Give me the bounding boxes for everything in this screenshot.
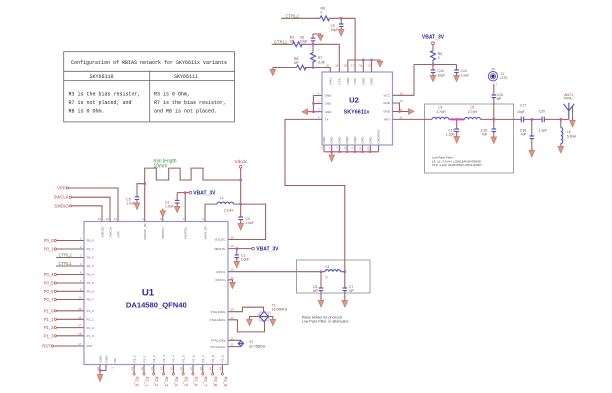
svg-text:CTRL2: CTRL2 (286, 13, 300, 18)
ground at C18 (529, 151, 535, 158)
svg-text:2.7nH: 2.7nH (436, 110, 446, 114)
power VBAT_3V (U1 top) (177, 191, 216, 222)
ground at U2 top bus (377, 61, 383, 67)
resistor R7 (311, 44, 326, 67)
svg-text:2.7nH: 2.7nH (468, 110, 478, 114)
port P2_6 (192, 365, 199, 387)
svg-text:RFIOp: RFIOp (216, 270, 225, 274)
capacitor C7 (343, 272, 355, 301)
ground at C10 (430, 76, 436, 82)
svg-text:P0_6: P0_6 (87, 290, 95, 294)
svg-text:NP: NP (482, 133, 487, 137)
port P2_7 (202, 365, 209, 387)
svg-text:P2_5: P2_5 (182, 355, 186, 363)
svg-text:31: 31 (130, 367, 134, 371)
node CTRL1 (U1 side) (56, 261, 84, 266)
wire: RFIOp to filter (228, 271, 321, 273)
svg-text:P0_5: P0_5 (44, 281, 54, 286)
svg-text:35: 35 (169, 367, 173, 371)
svg-text:P0_0: P0_0 (87, 239, 95, 243)
svg-text:2: 2 (80, 245, 82, 249)
svg-text:10pF: 10pF (517, 110, 525, 114)
svg-text:P0_1: P0_1 (87, 247, 95, 251)
ground at BIAS network (270, 68, 276, 76)
capacitor C17 (series) (517, 104, 526, 123)
svg-text:R7 is the bias resistor,: R7 is the bias resistor, (154, 100, 226, 106)
svg-text:P0_6: P0_6 (44, 289, 54, 294)
svg-text:P0_4: P0_4 (44, 272, 54, 277)
svg-text:GND: GND (325, 110, 333, 114)
svg-text:7: 7 (335, 147, 339, 149)
ground at C2 (174, 207, 180, 213)
svg-text:P1_1: P1_1 (87, 318, 95, 322)
svg-text:32: 32 (140, 367, 144, 371)
junction node CTRL2/C9 (340, 17, 343, 20)
svg-text:VCC: VCC (383, 94, 390, 98)
svg-text:33: 33 (150, 367, 154, 371)
svg-text:2.2uH: 2.2uH (224, 208, 234, 212)
inductor L5 (465, 106, 481, 120)
wire: U2 TX to mid filter (285, 119, 345, 271)
svg-text:U2: U2 (349, 96, 359, 105)
svg-text:26: 26 (78, 315, 82, 319)
svg-text:GND: GND (353, 136, 357, 144)
svg-text:U1: U1 (142, 288, 155, 299)
ground at C1 (234, 262, 240, 268)
svg-text:GND: GND (104, 355, 108, 363)
svg-text:SWCLK: SWCLK (54, 195, 69, 200)
crystal Y1 16MHz (250, 303, 288, 321)
capacitor C19 (481, 119, 496, 137)
capacitor C2 (165, 193, 180, 209)
svg-text:L1: L1 (220, 196, 224, 200)
inductor L6 (561, 119, 577, 146)
svg-text:0R: 0R (290, 39, 295, 43)
svg-text:GND: GND (370, 77, 374, 85)
U1 right pin names (209, 238, 226, 349)
IC U1 body DA14580_QFN40 (84, 222, 228, 365)
svg-text:GND: GND (345, 136, 349, 144)
svg-text:GND: GND (337, 136, 341, 144)
ground at Y1 pad left (247, 320, 253, 326)
wire: VCC node (393, 65, 457, 96)
svg-text:VPP: VPP (57, 186, 66, 191)
capacitor C15 (492, 84, 503, 119)
svg-text:3: 3 (80, 254, 82, 258)
svg-text:18: 18 (344, 64, 348, 68)
junction C5/meander (143, 182, 146, 185)
svg-text:13: 13 (400, 99, 404, 103)
svg-text:10: 10 (358, 147, 362, 151)
svg-text:15: 15 (231, 268, 235, 272)
junction meander/Vdcdc (239, 179, 242, 182)
svg-text:RST: RST (87, 344, 93, 348)
svg-text:GND: GND (98, 355, 102, 363)
svg-text:P2_2: P2_2 (152, 355, 156, 363)
svg-text:10pF: 10pF (331, 28, 339, 32)
svg-text:P2_9: P2_9 (221, 355, 225, 363)
svg-text:23: 23 (98, 217, 102, 221)
port P1_1 (44, 317, 84, 322)
power VBAT_3V (U1 right) (228, 247, 279, 253)
svg-text:1: 1 (318, 92, 320, 96)
U1 top pin names (100, 223, 207, 240)
svg-text:and R8 is not placed.: and R8 is not placed. (154, 108, 217, 114)
svg-text:CTX: CTX (337, 78, 341, 84)
svg-text:P2_1: P2_1 (144, 377, 149, 387)
junction C1 tap (235, 247, 238, 250)
junction dots on U2 bottom bus (330, 150, 371, 153)
svg-text:21: 21 (366, 147, 370, 151)
svg-text:6: 6 (202, 217, 204, 221)
junction antenna feed (559, 118, 562, 121)
svg-text:CTRL1: CTRL1 (59, 261, 73, 266)
svg-text:29: 29 (231, 308, 235, 312)
svg-text:10: 10 (78, 296, 82, 300)
svg-text:P2_3: P2_3 (162, 355, 166, 363)
svg-text:P2_9: P2_9 (223, 377, 228, 387)
svg-text:P0_5: P0_5 (87, 281, 95, 285)
svg-text:8: 8 (160, 217, 162, 221)
junction L4/L5/C16 (455, 118, 458, 121)
svg-text:30: 30 (231, 316, 235, 320)
node CTRL1 wire (272, 39, 340, 72)
svg-text:1.2pF: 1.2pF (446, 133, 455, 137)
svg-text:PIFA: PIFA (564, 97, 572, 101)
low pass filter box (annotation) (425, 104, 514, 173)
svg-text:P2_0: P2_0 (132, 355, 136, 363)
svg-text:4: 4 (142, 217, 144, 221)
svg-text:1.0uF: 1.0uF (126, 201, 135, 205)
svg-text:GND: GND (330, 136, 334, 144)
svg-text:GND: GND (346, 77, 350, 85)
svg-text:P0_4: P0_4 (87, 273, 95, 277)
svg-text:NP: NP (497, 97, 502, 101)
port P2_8 (212, 365, 219, 387)
svg-text:Low Pass Filter, or attenuator: Low Pass Filter, or attenuator (302, 320, 350, 324)
ground at U1 GND pins (97, 375, 103, 382)
svg-text:P2_0: P2_0 (135, 377, 140, 387)
svg-text:5: 5 (320, 147, 324, 149)
svg-text:36: 36 (179, 367, 183, 371)
ground (right-pointing) at U2 pins 13,12 (409, 109, 415, 115)
svg-text:P2_6: P2_6 (193, 377, 198, 387)
svg-text:C19: 1.2pF GRM1555C1HR2JA01D: C19: 1.2pF GRM1555C1HR2JA01D (432, 163, 482, 167)
port P0_7 (44, 297, 84, 302)
junction L3 left / C8 (320, 270, 323, 273)
U2 right pin names (383, 94, 391, 122)
svg-text:SWDIO: SWDIO (54, 203, 69, 208)
svg-text:0: 0 (438, 56, 440, 60)
crystal Y2 32.768kHz (238, 340, 265, 348)
svg-text:4: 4 (80, 262, 82, 266)
svg-text:P2_4: P2_4 (174, 377, 179, 387)
ground at Y1 pad right (270, 320, 276, 326)
svg-text:P2_3: P2_3 (164, 377, 169, 387)
svg-text:U.FL: U.FL (501, 76, 508, 80)
svg-text:18: 18 (231, 236, 235, 240)
junction at GND pins (398, 110, 401, 113)
wire: U2 top GND pins bus to ground (348, 60, 380, 72)
svg-text:21: 21 (114, 217, 118, 221)
port P0_4 (44, 272, 84, 277)
svg-text:VBAT2V: VBAT2V (214, 247, 227, 251)
table: RBIAS configuration notes (64, 52, 235, 122)
svg-text:38: 38 (199, 367, 203, 371)
U2 pin numbers (318, 64, 403, 151)
U1 bottom pin names (98, 355, 224, 363)
node CTRL2 (U1 side) (56, 253, 84, 258)
U2 bottom pin names (322, 129, 381, 144)
svg-text:25: 25 (78, 307, 82, 311)
svg-text:3: 3 (318, 108, 320, 112)
svg-text:27: 27 (78, 324, 82, 328)
svg-text:17: 17 (351, 64, 355, 68)
svg-text:VBAT_3V: VBAT_3V (422, 34, 445, 40)
port P2_1 (143, 365, 150, 387)
ground at C7 (342, 301, 348, 308)
svg-text:20: 20 (326, 64, 330, 68)
wire: U1 bottom GND pins (100, 365, 106, 375)
svg-text:10mm: 10mm (154, 164, 168, 170)
node BIAS wire (273, 68, 331, 73)
svg-text:P2_7: P2_7 (203, 377, 208, 387)
U2 left pin names (325, 94, 333, 122)
capacitor C20 (series) (539, 109, 548, 132)
port P1_2 (44, 325, 84, 330)
ground at C3 (238, 224, 244, 231)
power Vdcdc (235, 159, 248, 217)
svg-text:NC: NC (113, 357, 117, 362)
svg-text:10pF: 10pF (438, 73, 446, 77)
svg-text:P2_2: P2_2 (154, 377, 159, 387)
svg-text:XTAL32Kp: XTAL32Kp (211, 339, 226, 343)
svg-text:P2_1: P2_1 (142, 355, 146, 363)
inductor L3 (321, 265, 345, 280)
junction L3 right / C7 / TX (343, 270, 346, 273)
svg-text:6: 6 (328, 147, 332, 149)
svg-text:P1_0: P1_0 (44, 308, 54, 313)
U1 bottom pin numbers (96, 367, 222, 371)
port P0_5 (44, 281, 84, 286)
junction C17/C18 (530, 118, 533, 121)
ground at U2 bottom bus (329, 155, 335, 162)
resistor R2 (290, 35, 302, 46)
svg-text:1.2pF: 1.2pF (539, 129, 548, 133)
svg-text:16.00MHz: 16.00MHz (272, 308, 288, 312)
svg-text:C17: C17 (520, 104, 526, 108)
port P0_6 (44, 289, 84, 294)
capacitor C5 (126, 184, 144, 206)
resistor R5 (431, 51, 443, 65)
port VPP (57, 186, 118, 222)
svg-text:P2_6: P2_6 (191, 355, 195, 363)
svg-text:NP: NP (313, 289, 318, 293)
svg-text:NP: NP (521, 133, 526, 137)
svg-text:40: 40 (218, 367, 222, 371)
svg-text:ANT: ANT (384, 118, 390, 122)
wire: U2 left GND pins 1-3 bus (308, 96, 323, 112)
svg-text:TX: TX (325, 118, 329, 122)
svg-text:16: 16 (359, 64, 363, 68)
U2 bottom pins bus (324, 145, 379, 155)
resistor R8 (294, 57, 306, 70)
port RST (42, 344, 84, 349)
ground at C16 (454, 137, 460, 144)
junction dots on U2 left bus (312, 102, 315, 113)
svg-text:34: 34 (160, 367, 164, 371)
svg-text:16: 16 (231, 244, 235, 248)
svg-text:GND: GND (383, 110, 391, 114)
capacitor C8 (313, 272, 323, 301)
U1 top pin numbers (98, 217, 205, 221)
svg-text:GND: GND (368, 136, 372, 144)
capacitor C14 (454, 65, 469, 78)
svg-text:SWCLK: SWCLK (108, 226, 112, 238)
svg-text:P2_8: P2_8 (213, 377, 218, 387)
svg-text:Vdcdc: Vdcdc (235, 159, 248, 164)
svg-text:P1_3: P1_3 (87, 334, 95, 338)
wire: XTAL16Mm to Y1 (228, 320, 265, 332)
svg-text:GND: GND (325, 102, 333, 106)
svg-text:1.0uF: 1.0uF (245, 221, 254, 225)
svg-text:VBAT_RF: VBAT_RF (203, 226, 207, 240)
svg-text:GND: GND (325, 94, 333, 98)
svg-text:L3: L3 (326, 265, 330, 269)
ground at C14 (454, 76, 460, 82)
U1 left pin names (87, 239, 95, 349)
svg-text:R8 is 0 Ohm.: R8 is 0 Ohm. (69, 108, 105, 114)
svg-text:1.0uF: 1.0uF (461, 73, 470, 77)
svg-text:28: 28 (78, 332, 82, 336)
svg-text:XTAL16Mm: XTAL16Mm (209, 318, 226, 322)
svg-text:1: 1 (496, 82, 498, 86)
svg-text:P1_2: P1_2 (44, 325, 54, 330)
svg-text:15: 15 (367, 64, 371, 68)
op-amp U2 body (FEM SKY6611x) (322, 72, 393, 145)
U2 top pin names (328, 77, 373, 85)
svg-text:2: 2 (111, 367, 115, 369)
junction VBAT_3V/pin (184, 191, 187, 194)
wire segment (highlighted net) (450, 118, 465, 120)
port P2_9 (221, 365, 228, 387)
svg-text:NP: NP (349, 289, 354, 293)
svg-text:9: 9 (80, 287, 82, 291)
capacitor C9 (331, 18, 344, 32)
svg-text:P1_3: P1_3 (44, 333, 54, 338)
capacitor C6 (300, 34, 321, 44)
svg-text:VBAT_3V: VBAT_3V (193, 191, 216, 197)
U1 left pin numbers (78, 237, 82, 347)
svg-text:11: 11 (400, 115, 403, 119)
port SWCLK (54, 195, 110, 222)
svg-text:P1_1: P1_1 (44, 317, 54, 322)
junction dots on U2 top bus (362, 59, 373, 62)
wire: VDCDC_RF pin to meander (144, 184, 146, 222)
svg-text:R3 is 0 Ohm,: R3 is 0 Ohm, (154, 92, 190, 98)
wire: XTAL32K pins (228, 340, 241, 346)
U1 right pin numbers (231, 236, 235, 347)
ground at C19 (491, 137, 497, 144)
svg-text:GND: GND (361, 136, 365, 144)
svg-text:R3 is the bias resistor,: R3 is the bias resistor, (69, 92, 141, 98)
svg-text:CTRL1: CTRL1 (274, 39, 288, 44)
svg-text:P0_2: P0_2 (87, 256, 95, 260)
svg-text:BIAS: BIAS (328, 77, 332, 84)
svg-text:P2_8: P2_8 (211, 355, 215, 363)
svg-text:R7 is not placed, and: R7 is not placed, and (69, 100, 132, 106)
svg-text:7: 7 (80, 279, 82, 283)
port P1_3 (44, 333, 84, 338)
svg-text:P0_0: P0_0 (44, 238, 54, 243)
port P2_2 (153, 365, 160, 387)
svg-text:CTRL2: CTRL2 (59, 253, 73, 258)
svg-text:10pF: 10pF (300, 39, 308, 43)
antenna ANT1 PIFA (564, 93, 575, 121)
svg-text:SWDIO: SWDIO (100, 226, 104, 237)
note: placeholder text (302, 316, 350, 324)
ground at C8 (318, 301, 324, 308)
svg-text:GND: GND (322, 136, 326, 144)
ground at ANT1 (570, 121, 576, 128)
svg-text:1.0uF: 1.0uF (165, 204, 174, 208)
port P1_0 (44, 308, 84, 313)
junction C15/C19 on RF line (492, 118, 495, 121)
junction node R7/R8/BIAS (312, 66, 315, 69)
wire: RF line from U2 ANT pin (393, 118, 569, 120)
svg-text:Configuration of RBIAS network: Configuration of RBIAS network for SKY66… (71, 60, 227, 66)
svg-text:C20: C20 (539, 109, 545, 113)
svg-text:VBAT3V: VBAT3V (184, 226, 188, 239)
svg-text:0: 0 (321, 11, 323, 15)
svg-text:4: 4 (318, 115, 320, 119)
svg-text:DA14580_QFN40: DA14580_QFN40 (126, 300, 187, 309)
wire: meander (min length trace) (145, 159, 241, 184)
ground at C6 (318, 35, 324, 40)
svg-text:P0_1: P0_1 (44, 247, 54, 252)
capacitor C3 (238, 217, 253, 225)
wire: U2 right GND pins 13,12 (393, 103, 409, 112)
svg-text:2: 2 (318, 100, 320, 104)
svg-text:VDCDC_RF: VDCDC_RF (143, 223, 147, 240)
svg-text:GND/PAD: GND/PAD (377, 129, 381, 144)
connector J1 U.FL (488, 67, 508, 86)
svg-text:7: 7 (183, 217, 185, 221)
port P2_4 (172, 365, 179, 387)
capacitor C10 (431, 65, 446, 78)
svg-text:NP: NP (491, 67, 495, 71)
svg-text:9: 9 (351, 147, 355, 149)
svg-text:XTAL16Mp: XTAL16Mp (210, 310, 226, 314)
junction node CTRL1/C6/R7 (312, 43, 315, 46)
svg-text:39: 39 (209, 367, 213, 371)
svg-text:GND: GND (361, 77, 365, 85)
svg-text:P0_7: P0_7 (87, 298, 95, 302)
svg-text:CRX: CRX (353, 78, 357, 85)
wire: VDCDC pin to Vdcdc node (228, 204, 266, 239)
port P2_0 (133, 365, 140, 387)
svg-text:XTAL32Km: XTAL32Km (210, 345, 226, 349)
svg-text:6: 6 (80, 271, 82, 275)
svg-text:VBAT_3V: VBAT_3V (256, 247, 279, 253)
port P0_1 (44, 247, 84, 252)
svg-text:SKY66110: SKY66110 (89, 74, 113, 80)
svg-text:RST: RST (42, 344, 51, 349)
inductor L1 (205, 196, 241, 222)
ground above VBAT1V pin (160, 209, 166, 222)
svg-text:P1_2: P1_2 (87, 326, 95, 330)
svg-text:P1_0: P1_0 (87, 309, 95, 313)
